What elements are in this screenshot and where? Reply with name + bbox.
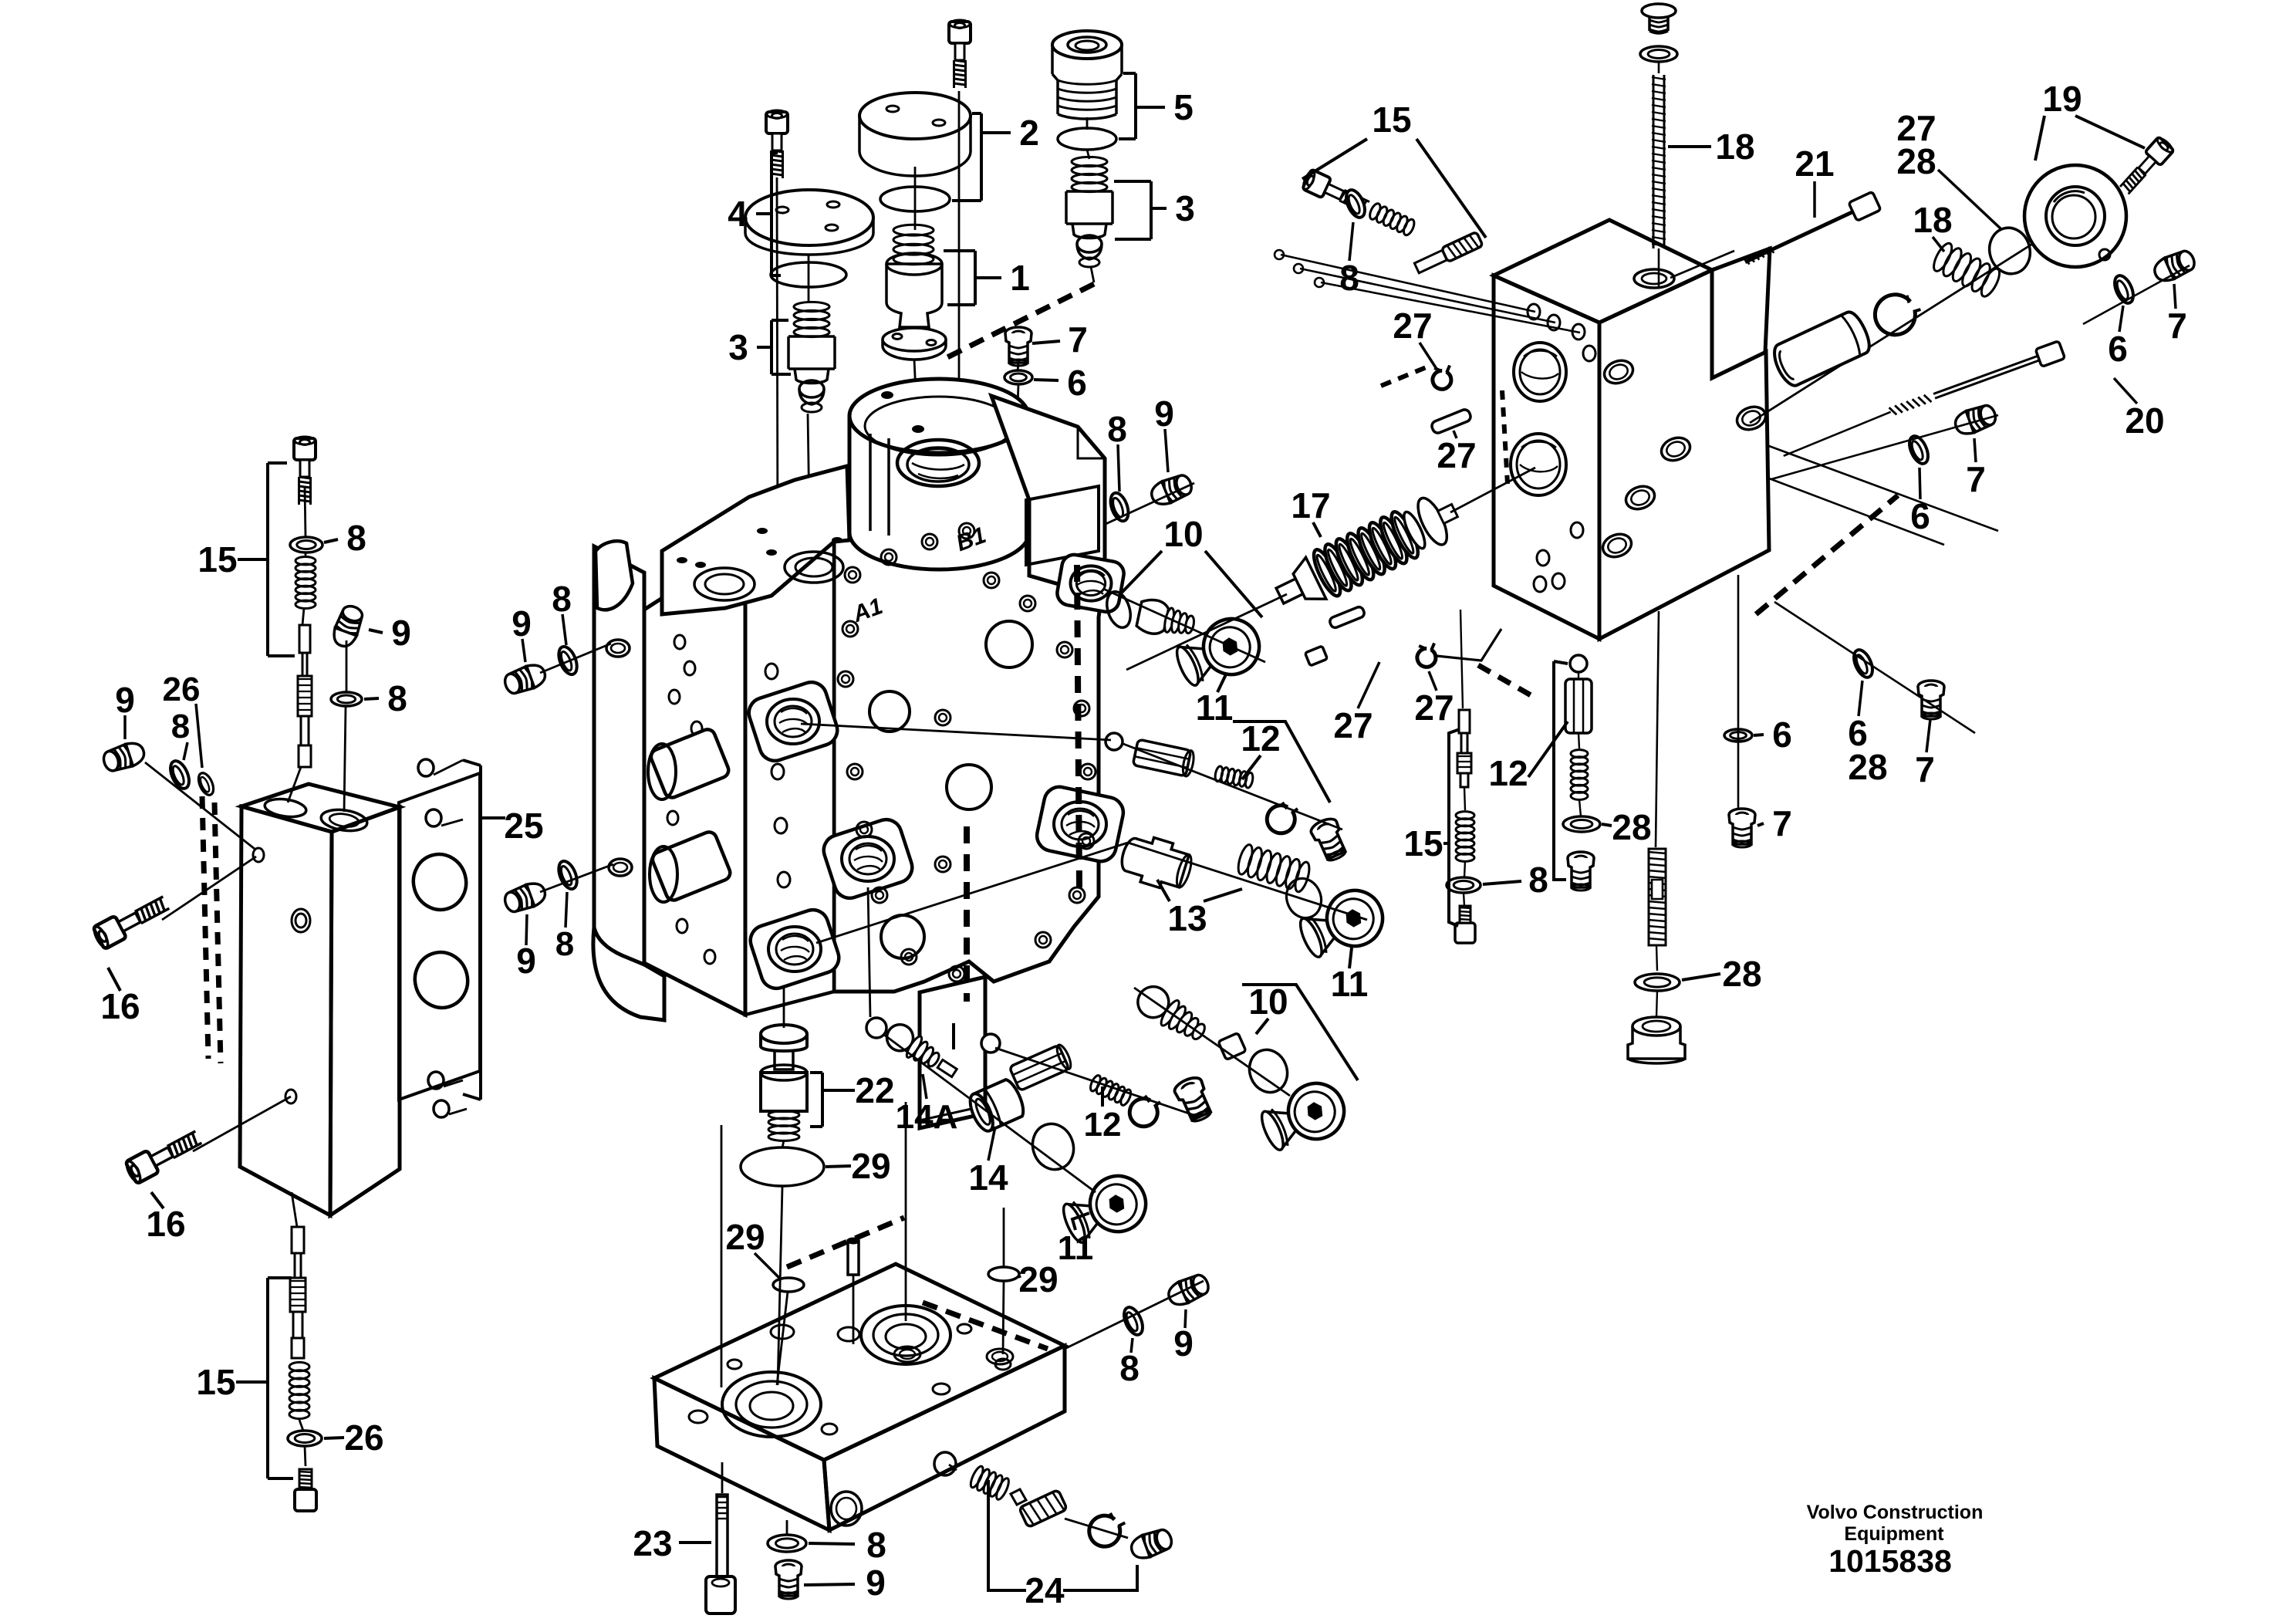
pin rod 27 xyxy=(1281,255,1535,312)
leader 17 xyxy=(1313,522,1321,537)
svg-text:8: 8 xyxy=(171,708,190,745)
svg-text:6: 6 xyxy=(1067,363,1087,403)
leader 28 xyxy=(1602,824,1612,826)
plug xyxy=(1568,852,1594,890)
svg-text:12: 12 xyxy=(1084,1106,1122,1144)
svg-text:25: 25 xyxy=(504,806,543,846)
axis 10a xyxy=(1103,589,1265,662)
leader 18 xyxy=(1668,145,1711,148)
retainer ring 29 right xyxy=(988,1267,1019,1281)
leader 6 xyxy=(2119,306,2123,332)
axis vertical xyxy=(1737,575,1740,812)
compensator spool 17 xyxy=(1268,488,1465,619)
svg-text:24: 24 xyxy=(1025,1570,1065,1610)
plug 9 xyxy=(330,603,366,650)
leader 12 xyxy=(1242,755,1261,779)
threaded stud xyxy=(1648,849,1666,945)
main axis right xyxy=(1750,204,2095,423)
svg-text:7: 7 xyxy=(1915,749,1935,789)
axis 15a xyxy=(305,488,306,537)
leader 12 xyxy=(1101,1086,1104,1107)
washer 8 xyxy=(555,859,581,892)
leader 6 xyxy=(1859,681,1862,716)
bolt 21 xyxy=(1741,191,1880,271)
axis washer plug xyxy=(1774,602,1975,733)
left manifold block xyxy=(240,784,400,1215)
axis screw4 to deck xyxy=(777,177,778,560)
axis to plate ring B xyxy=(905,1102,907,1321)
leader 5 xyxy=(1136,106,1165,109)
svg-text:8: 8 xyxy=(1119,1348,1140,1388)
axis item3 to deck xyxy=(808,414,810,567)
leader 8 xyxy=(364,698,379,699)
plug 11 xyxy=(1293,881,1391,965)
svg-text:11: 11 xyxy=(1331,964,1369,1004)
washer 8 xyxy=(290,537,322,552)
svg-text:17: 17 xyxy=(1291,485,1330,525)
svg-text:8: 8 xyxy=(866,1525,886,1565)
cap 4 xyxy=(745,190,873,255)
leader 7 xyxy=(1974,438,1976,462)
axis from port to 13 xyxy=(816,843,1128,943)
threaded port boss xyxy=(1034,784,1126,864)
bolt 21 axis xyxy=(1670,251,1734,278)
sealing washer 8 xyxy=(1107,491,1132,524)
spring item 15 xyxy=(289,1362,309,1418)
threaded rod 18 xyxy=(1652,75,1666,248)
adjusting screw 15 top xyxy=(294,437,316,505)
svg-text:13: 13 xyxy=(1167,898,1207,938)
leader 11 xyxy=(1217,673,1227,692)
ball xyxy=(1106,733,1123,750)
svg-text:Equipment: Equipment xyxy=(1844,1523,1944,1545)
svg-text:8: 8 xyxy=(1528,860,1548,900)
axis washer plug xyxy=(786,1520,788,1534)
svg-text:15: 15 xyxy=(1403,823,1443,863)
svg-text:20: 20 xyxy=(2125,400,2164,441)
washer xyxy=(1640,46,1677,62)
svg-text:3: 3 xyxy=(1175,188,1195,228)
washer 28 xyxy=(1563,816,1600,832)
leader 9 xyxy=(522,639,525,662)
axis to block hole xyxy=(145,762,255,849)
axis below block xyxy=(292,1192,297,1227)
plug 11 xyxy=(1254,1074,1352,1158)
svg-text:3: 3 xyxy=(728,327,748,367)
washer 6 xyxy=(1724,729,1752,742)
leader 15 xyxy=(1302,139,1367,179)
svg-text:9: 9 xyxy=(391,613,411,653)
screw 8-15 group xyxy=(1301,168,1372,217)
ball xyxy=(866,1018,886,1038)
axis 10 group xyxy=(1134,988,1290,1096)
screw lower xyxy=(1455,906,1475,943)
screw for flange xyxy=(2116,136,2175,198)
leader 8 xyxy=(1483,881,1521,884)
svg-text:7: 7 xyxy=(1772,803,1792,843)
leader 29 xyxy=(1019,1276,1020,1278)
svg-text:7: 7 xyxy=(1966,459,1986,499)
washer 28 xyxy=(1635,974,1680,991)
leader 8 xyxy=(1349,222,1353,261)
plug 7 xyxy=(2151,248,2198,286)
axis down to plate xyxy=(778,1187,782,1385)
leader 16 xyxy=(108,968,120,991)
ball xyxy=(981,1034,1000,1053)
axis to port xyxy=(540,644,611,673)
washer 8 xyxy=(331,692,362,706)
svg-text:15: 15 xyxy=(198,539,237,580)
leader 7 xyxy=(1926,719,1930,752)
hidden axis dashed to bore B1 xyxy=(940,284,1094,361)
axis item1 to bore B1 xyxy=(914,360,919,460)
valve cartridge 1 xyxy=(883,225,946,360)
leader 8 xyxy=(1131,1338,1133,1353)
axis to plate ring A xyxy=(721,1125,723,1387)
washer 8 xyxy=(555,644,581,678)
spring xyxy=(893,225,934,264)
bolt 16 upper xyxy=(91,891,171,950)
svg-text:6: 6 xyxy=(2108,329,2128,369)
washer 8 xyxy=(768,1535,806,1552)
cover flange 19 xyxy=(2024,165,2126,267)
hidden edge dashed vertical xyxy=(1077,565,1079,887)
svg-text:9: 9 xyxy=(512,603,532,644)
leader 19 xyxy=(2035,116,2044,161)
svg-text:16: 16 xyxy=(100,986,140,1026)
seal plate 25 xyxy=(399,759,480,1117)
plug 9 xyxy=(502,880,549,915)
svg-text:9: 9 xyxy=(1173,1323,1194,1363)
spring item 15 xyxy=(295,557,316,609)
axis 3R tip xyxy=(1091,267,1094,282)
leader 8 xyxy=(809,1543,855,1544)
axis 9-8 xyxy=(346,640,348,692)
leader 13 xyxy=(1157,880,1170,901)
pin rod 27 xyxy=(1321,282,1580,333)
leader 8 xyxy=(1118,444,1119,492)
axis 5 xyxy=(1086,117,1089,130)
leader 28 xyxy=(1938,170,2002,230)
leader 23 xyxy=(679,1541,711,1544)
bolt 16 axis xyxy=(162,857,256,920)
pilot pin 15 xyxy=(1413,231,1483,275)
threaded port boss xyxy=(1055,552,1126,613)
threaded port boss xyxy=(745,678,842,765)
axis mid port to ball xyxy=(868,887,870,1017)
leader 9 xyxy=(1165,429,1168,472)
axis above 22 xyxy=(783,988,785,1028)
snap ring 27 xyxy=(1411,638,1443,670)
spring xyxy=(968,1465,1011,1501)
svg-text:26: 26 xyxy=(344,1418,383,1458)
svg-text:28: 28 xyxy=(1612,807,1651,847)
svg-text:8: 8 xyxy=(1107,409,1127,449)
washer 28 xyxy=(1087,1510,1126,1549)
svg-text:12: 12 xyxy=(1241,718,1280,759)
washer 6 xyxy=(1004,370,1032,384)
hidden edge dashed xyxy=(787,1218,904,1267)
snap ring 27 xyxy=(1427,360,1458,392)
leader 2 xyxy=(981,131,1011,134)
leader 7 xyxy=(1757,823,1764,826)
svg-text:9: 9 xyxy=(115,680,135,720)
o-ring for cap 4 xyxy=(771,262,846,287)
leader 22 xyxy=(822,1089,855,1092)
plug 7 xyxy=(1005,327,1032,366)
svg-text:8: 8 xyxy=(1339,258,1359,298)
svg-text:18: 18 xyxy=(1715,127,1754,167)
svg-text:8: 8 xyxy=(555,925,574,963)
leader 6 xyxy=(1754,735,1764,735)
washer 8 xyxy=(1447,877,1481,893)
screw above cap 4 xyxy=(766,110,788,178)
washer 6 xyxy=(1850,647,1876,681)
spring 12 xyxy=(1089,1074,1133,1107)
svg-text:22: 22 xyxy=(855,1070,894,1110)
leader 18 xyxy=(1933,237,1944,252)
leader 9 xyxy=(1185,1309,1186,1328)
svg-text:15: 15 xyxy=(1372,100,1411,140)
leader 1 xyxy=(975,276,1001,279)
leader 27 xyxy=(1420,343,1437,369)
spring xyxy=(1072,157,1107,191)
svg-text:7: 7 xyxy=(1068,319,1088,360)
plug 9 xyxy=(101,739,147,774)
svg-text:8: 8 xyxy=(387,678,407,718)
hidden mating face dashed xyxy=(202,796,208,1059)
svg-text:2: 2 xyxy=(1019,113,1039,153)
hidden dashed xyxy=(1502,390,1508,484)
washer 8 xyxy=(167,759,193,792)
set screw xyxy=(1305,646,1328,666)
leader 26 xyxy=(324,1438,344,1438)
bottom plate xyxy=(654,1264,1065,1530)
leader 8 xyxy=(562,614,566,645)
shock valve 3 right xyxy=(1066,157,1113,267)
svg-text:29: 29 xyxy=(725,1217,765,1257)
spring xyxy=(794,302,829,336)
svg-text:1: 1 xyxy=(1010,258,1030,298)
plug xyxy=(1172,1074,1216,1124)
plug 9 xyxy=(1148,471,1194,509)
o-ring xyxy=(1026,1118,1079,1175)
plug 7 xyxy=(1952,402,1998,438)
leader 8 xyxy=(324,539,338,542)
svg-text:4: 4 xyxy=(728,194,748,234)
threaded port boss xyxy=(747,906,843,992)
spring 15 xyxy=(1456,812,1474,862)
svg-text:11: 11 xyxy=(1196,688,1234,728)
leader 11 xyxy=(1072,1213,1089,1230)
svg-text:27: 27 xyxy=(1393,306,1432,346)
rod into block xyxy=(1658,248,1660,287)
threaded port boss xyxy=(820,816,917,902)
leader 27 xyxy=(1358,662,1379,708)
screw above cap 2 xyxy=(949,20,971,88)
plug xyxy=(1308,816,1350,863)
leader 7 xyxy=(1032,341,1060,343)
plug 9 xyxy=(775,1560,802,1599)
o-ring 29 xyxy=(741,1147,824,1186)
leader 25 xyxy=(494,816,505,819)
spring 12 xyxy=(1214,765,1254,789)
spring 13 xyxy=(1235,843,1312,894)
shock valve 3 left xyxy=(788,302,835,412)
screw below xyxy=(295,1469,316,1511)
svg-text:16: 16 xyxy=(146,1204,185,1244)
leader 9 xyxy=(123,715,127,739)
svg-text:15: 15 xyxy=(196,1362,235,1402)
svg-text:27: 27 xyxy=(1333,705,1373,745)
o-ring 10 xyxy=(1102,589,1134,630)
svg-text:5: 5 xyxy=(1173,87,1194,127)
leader 14A xyxy=(923,1074,927,1099)
leader 3L xyxy=(757,346,772,349)
leader 8 xyxy=(566,892,567,928)
svg-text:10: 10 xyxy=(1248,982,1288,1022)
bolt 23 xyxy=(706,1495,735,1614)
pin 27 xyxy=(1430,408,1472,434)
axis 6-7 xyxy=(2083,265,2190,324)
pressure valve 22 xyxy=(761,1025,807,1140)
leader 4 xyxy=(756,212,772,215)
leader 21 xyxy=(1813,181,1816,218)
end cap block right xyxy=(1494,220,1770,639)
axis 14 group xyxy=(884,1035,1096,1192)
svg-text:6: 6 xyxy=(1772,715,1792,755)
axis 15c top xyxy=(1460,610,1463,708)
spring 18 xyxy=(1930,241,2003,299)
leader 20 xyxy=(2114,378,2137,404)
leader 11 xyxy=(1349,948,1352,968)
axis 17 xyxy=(1126,594,1287,670)
svg-text:9: 9 xyxy=(866,1563,886,1603)
svg-text:28: 28 xyxy=(1896,141,1936,181)
svg-text:7: 7 xyxy=(2167,306,2187,346)
svg-text:18: 18 xyxy=(1913,200,1952,240)
axis 23 xyxy=(721,1462,724,1493)
leader 10 xyxy=(1120,551,1162,594)
leader 14 xyxy=(988,1127,995,1161)
boss cylinder xyxy=(649,727,731,799)
axis 24 xyxy=(949,1465,957,1470)
washer 8 xyxy=(1120,1305,1146,1338)
svg-text:14A: 14A xyxy=(896,1098,958,1136)
bolt 20 xyxy=(1779,341,2065,461)
svg-text:14: 14 xyxy=(968,1157,1008,1198)
hidden dashed xyxy=(1478,665,1532,696)
svg-text:23: 23 xyxy=(633,1523,672,1563)
leader 24 xyxy=(988,1480,1026,1590)
leader 9 xyxy=(526,914,527,945)
svg-text:29: 29 xyxy=(851,1146,890,1186)
hidden edge dashed vertical xyxy=(964,826,970,1002)
leader 3R xyxy=(1151,207,1167,210)
svg-text:29: 29 xyxy=(1018,1259,1058,1299)
svg-text:21: 21 xyxy=(1795,144,1834,184)
svg-text:9: 9 xyxy=(516,941,536,981)
pin axis xyxy=(853,1275,855,1344)
leader 15 xyxy=(238,558,268,561)
plug top xyxy=(1642,4,1676,33)
shelf line xyxy=(1769,478,1944,545)
plug 7 xyxy=(1918,681,1944,719)
spacer 12 xyxy=(1565,679,1592,733)
axis 7-6 xyxy=(1018,363,1018,371)
pilot spool 15 lower xyxy=(290,1227,306,1358)
axis cap2 to item 1 xyxy=(914,167,917,230)
leader 7 xyxy=(2174,284,2176,309)
plug 5 xyxy=(1052,31,1122,119)
shim 28 xyxy=(1984,223,2035,278)
svg-text:19: 19 xyxy=(2042,79,2082,119)
retainer ring 29 xyxy=(773,1278,804,1292)
axis from port to 12 xyxy=(801,724,1111,740)
axis line screw 2 xyxy=(958,91,961,403)
axis through washer 8 plug 9 xyxy=(1034,483,1194,557)
spacer 12 xyxy=(1133,739,1195,777)
boss cylinder xyxy=(650,830,732,902)
svg-text:1015838: 1015838 xyxy=(1828,1543,1952,1579)
bolt 16 axis xyxy=(193,1097,291,1151)
axis 12 group xyxy=(995,1048,1200,1117)
leader 12 xyxy=(1528,721,1568,777)
relief screw 24 xyxy=(968,1465,1067,1527)
cap 2 xyxy=(859,93,971,176)
leader 10 xyxy=(1256,1019,1268,1034)
o-ring xyxy=(1281,874,1326,923)
pilot spool 15 right xyxy=(1457,710,1471,787)
dowel pin xyxy=(848,1238,859,1275)
leader 9 xyxy=(804,1584,855,1585)
svg-text:8: 8 xyxy=(552,579,572,619)
svg-text:Volvo Construction: Volvo Construction xyxy=(1807,1502,1984,1523)
washer 6 xyxy=(1906,434,1932,467)
leader 6 xyxy=(1920,468,1920,499)
svg-text:26: 26 xyxy=(163,671,201,708)
leader 15 xyxy=(1443,729,1460,843)
spring 12 xyxy=(1571,750,1588,800)
spool 13 xyxy=(1117,830,1197,894)
leader 8/26 xyxy=(184,742,187,760)
leader 27 xyxy=(1454,431,1457,438)
washer 26 xyxy=(288,1431,322,1446)
dashed xyxy=(1381,365,1432,386)
nut xyxy=(1218,1032,1246,1059)
o-ring for plug 5 xyxy=(1058,128,1116,150)
axis 6-7 lower xyxy=(1771,415,1998,479)
leader 29 xyxy=(755,1253,779,1278)
leader 29 xyxy=(826,1166,851,1167)
o-ring for cap 2 xyxy=(880,187,950,211)
leader 9 xyxy=(369,630,383,633)
pin rod 27 xyxy=(1300,269,1555,323)
hidden dashed diagonal xyxy=(1756,495,1898,614)
svg-text:12: 12 xyxy=(1488,753,1528,793)
washer xyxy=(1267,803,1298,833)
leader 6 xyxy=(1034,380,1059,380)
seal 26 xyxy=(196,771,217,797)
bushing xyxy=(1769,309,1874,390)
svg-text:28: 28 xyxy=(1848,747,1887,787)
cup plug 14 xyxy=(966,1077,1028,1134)
poppet 10 xyxy=(1136,597,1197,642)
pin 27 small xyxy=(1329,606,1366,629)
plug 7 xyxy=(1729,809,1755,847)
main valve body xyxy=(593,379,1126,1128)
svg-text:28: 28 xyxy=(1722,954,1761,994)
